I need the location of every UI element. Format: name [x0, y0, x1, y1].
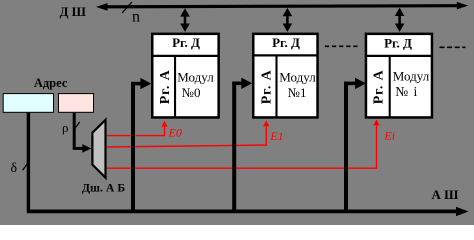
dashed continuation between module 1 and module i — [325, 45, 359, 47]
svg-text:Рг. Д: Рг. Д — [172, 35, 200, 50]
dashed continuation right of module i — [440, 46, 466, 48]
svg-text:δ: δ — [10, 161, 17, 176]
address field register (pink) — [59, 94, 94, 113]
svg-text:Модул: Модул — [279, 70, 316, 85]
double arrow module 1 — [283, 8, 293, 32]
svg-text:E0: E0 — [168, 125, 182, 139]
address wire riser to module 0 — [131, 78, 151, 212]
bus ДШ (top data bus wire) — [96, 2, 468, 11]
svg-text:Ei: Ei — [383, 129, 395, 143]
svg-text:№0: №0 — [182, 85, 201, 100]
svg-text:Рг. Д: Рг. Д — [384, 35, 412, 50]
svg-text:ρ: ρ — [62, 120, 69, 135]
wire δ: cyan register to bottom bus — [27, 113, 30, 212]
decoder Дш. А Б — [92, 120, 105, 178]
svg-text:Рг. А: Рг. А — [372, 69, 387, 104]
slash δ tick — [23, 161, 30, 170]
svg-text:Модул: Модул — [393, 68, 430, 83]
bus АШ (bottom address bus wire) — [27, 207, 469, 216]
module 1 block — [253, 34, 318, 118]
slash ρ tick — [74, 122, 80, 130]
svg-text:Рг. А: Рг. А — [158, 69, 173, 104]
red enable wire E1 — [107, 120, 270, 147]
red enable wire Ei — [107, 119, 380, 168]
svg-text:Модул: Модул — [177, 70, 214, 85]
svg-text:E1: E1 — [269, 129, 283, 143]
address wire riser to module i — [344, 78, 366, 212]
svg-text:Рг. А: Рг. А — [260, 69, 275, 104]
svg-text:А Ш: А Ш — [432, 187, 460, 202]
module 0 block — [152, 34, 219, 118]
svg-text:№1: №1 — [288, 85, 307, 100]
svg-text:Адрес: Адрес — [34, 76, 68, 90]
svg-text:n: n — [132, 9, 140, 26]
address wire riser to module 1 — [232, 78, 252, 212]
wire ρ: pink register to decoder — [73, 113, 92, 153]
svg-text:Рг. Д: Рг. Д — [272, 35, 300, 50]
svg-text:Д Ш: Д Ш — [59, 4, 86, 19]
module i block — [366, 34, 433, 118]
double arrow module 0 — [180, 8, 190, 32]
double arrow module i — [395, 8, 405, 32]
slash n (bus width tick) — [122, 2, 132, 13]
red enable wire E0 — [107, 121, 168, 136]
svg-text:№ i: № i — [395, 84, 418, 99]
svg-text:Дш. А Б: Дш. А Б — [82, 180, 125, 194]
address field register (cyan) — [3, 94, 53, 113]
